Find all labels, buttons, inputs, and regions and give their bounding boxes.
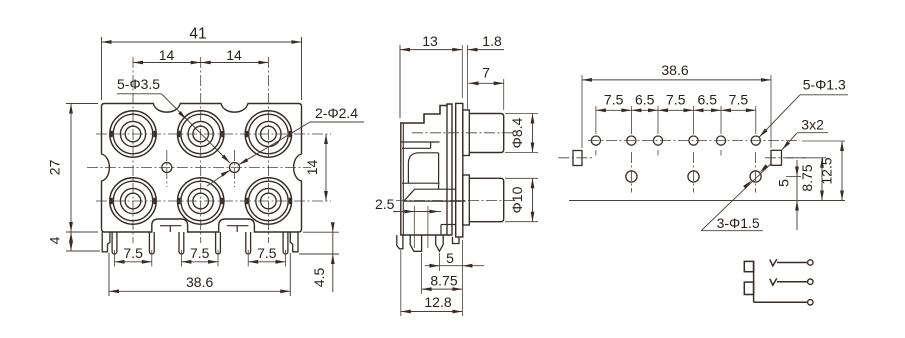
svg-text:5-Φ1.3: 5-Φ1.3: [803, 76, 846, 92]
svg-text:4: 4: [47, 236, 63, 244]
svg-text:7.5: 7.5: [190, 245, 210, 261]
side view internal lines: [401, 141, 440, 143]
svg-text:5: 5: [776, 179, 792, 187]
svg-text:14: 14: [304, 160, 320, 176]
RCA jack 3 concentric circles: [245, 111, 291, 157]
svg-text:12.8: 12.8: [424, 294, 451, 310]
side view centerlines: [412, 132, 517, 134]
T-slot marks in bottom arches: [160, 225, 182, 227]
dimension 27 (left height): [66, 103, 98, 105]
svg-text:38.6: 38.6: [661, 62, 688, 78]
dimension 38.6 (bottom overall): [108, 253, 110, 296]
dimension 14 (right, row spacing): [325, 134, 327, 201]
svg-text:8.75: 8.75: [799, 164, 815, 191]
pcb layout: small pin holes 5-phi1.3: [591, 136, 600, 145]
dimension 14 top-left: [133, 62, 201, 64]
front view bottom pins: [112, 232, 117, 254]
svg-text:14: 14: [226, 47, 242, 63]
dimension 12.8: [400, 250, 402, 316]
dimension 13: [399, 45, 401, 118]
dimension 38.6 (pcb): [581, 75, 583, 148]
pcb centerlines: [588, 140, 800, 142]
side view: body silhouette: [401, 104, 452, 235]
svg-text:6.5: 6.5: [635, 92, 655, 108]
RCA jack 1 concentric circles: [110, 111, 156, 157]
dimension 4 (leg offset): [66, 250, 100, 252]
svg-text:2-Φ2.4: 2-Φ2.4: [315, 105, 358, 121]
left mounting leg: [102, 232, 110, 252]
schematic: common vertical wire: [753, 261, 755, 302]
dimension 14 top-right: [201, 62, 269, 64]
dimension 4.5 (right, pin stand-off): [303, 231, 339, 233]
svg-text:38.6: 38.6: [186, 274, 213, 290]
svg-text:13: 13: [422, 33, 438, 49]
svg-text:14: 14: [159, 47, 175, 63]
svg-text:Φ8.4: Φ8.4: [509, 117, 525, 148]
svg-text:4.5: 4.5: [311, 268, 327, 288]
dimensions 7.5 pin pitch (three): [114, 250, 116, 267]
svg-text:3x2: 3x2: [801, 117, 824, 133]
schematic: jack contact squares: [744, 261, 753, 271]
pcb pads 3x2: [573, 151, 582, 166]
svg-text:6.5: 6.5: [698, 92, 718, 108]
right mounting leg: [290, 232, 298, 252]
svg-text:5-Φ3.5: 5-Φ3.5: [117, 76, 160, 92]
dimensions 7.5/6.5 pin spacing (pcb): [595, 106, 597, 134]
svg-text:5: 5: [446, 250, 454, 266]
bottom cylinder phi10: [469, 178, 503, 221]
dimension 12.5 (pcb): [802, 140, 845, 142]
svg-text:7: 7: [482, 65, 490, 81]
dimension 1.8: [468, 49, 505, 51]
svg-text:3-Φ1.5: 3-Φ1.5: [717, 215, 760, 231]
pcb layout: big holes 3-phi1.5: [626, 171, 637, 182]
dimension phi10: [505, 177, 538, 179]
schematic: terminal circles: [808, 260, 813, 265]
svg-text:Φ10: Φ10: [509, 186, 525, 213]
dimension phi8.4: [505, 113, 538, 115]
svg-text:7.5: 7.5: [257, 245, 277, 261]
dimension 8.75 (pcb): [786, 157, 826, 159]
svg-text:27: 27: [47, 160, 63, 176]
dimension 7 (cylinder protrusion): [503, 79, 505, 110]
side view front face double line: [402, 123, 404, 235]
RCA jack 2 concentric circles: [178, 111, 224, 157]
front view centerlines: [96, 133, 331, 135]
svg-text:1.8: 1.8: [482, 33, 502, 49]
svg-text:41: 41: [189, 26, 206, 43]
svg-text:12.5: 12.5: [819, 157, 835, 184]
small hole A (phi2.4): [162, 163, 172, 173]
pcb board edge baseline: [569, 200, 845, 202]
dimension 5 (pin to plate): [438, 253, 440, 271]
side view pins: [397, 235, 403, 249]
top cylinder phi8.4: [469, 114, 503, 153]
small hole B (phi2.4): [230, 163, 240, 173]
schematic: switch contact wires: [777, 262, 808, 264]
front view: connector body outline: [102, 104, 302, 233]
RCA jack 4 concentric circles: [110, 178, 156, 224]
svg-text:2.5: 2.5: [375, 196, 395, 212]
mounting plate (vertical): [456, 103, 463, 237]
svg-text:7.5: 7.5: [666, 92, 686, 108]
dimension 41 (top overall width): [101, 37, 103, 100]
RCA jack 5 concentric circles: [178, 178, 224, 224]
svg-text:8.75: 8.75: [430, 273, 457, 289]
dimension 5 (pcb rows): [786, 176, 801, 178]
svg-text:7.5: 7.5: [604, 92, 624, 108]
flange top jack: [463, 110, 470, 156]
flange bottom jack: [463, 175, 470, 225]
dimension 8.75: [421, 253, 423, 294]
svg-text:7.5: 7.5: [729, 92, 749, 108]
RCA jack 6 concentric circles: [245, 178, 291, 224]
svg-text:7.5: 7.5: [123, 245, 143, 261]
schematic: bottom wire to terminal: [754, 301, 808, 303]
